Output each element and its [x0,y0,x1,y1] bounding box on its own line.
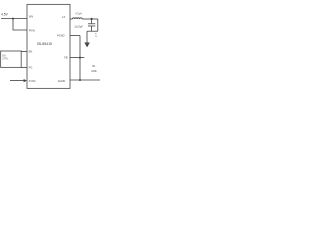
junction AGND node [79,79,81,81]
svg-text:AGND: AGND [58,79,66,83]
svg-text:PGND: PGND [57,34,65,38]
svg-text:PVIN: PVIN [29,28,35,32]
wire SYNC with arrow [10,80,24,82]
svg-text:2x22µF: 2x22µF [75,25,84,28]
wire branch to PVIN pin [13,19,27,30]
svg-text:VIN: VIN [29,15,33,19]
svg-text:FB: FB [64,56,68,60]
host block (left controller box) [1,51,22,67]
wire EN [21,50,27,52]
svg-text:100k: 100k [91,70,97,73]
svg-text:CTRL: CTRL [2,57,9,60]
wire divider vertical [79,36,81,80]
capacitor C2 [91,19,93,23]
svg-text:1k: 1k [95,36,98,38]
inductor L1 [73,18,83,19]
svg-text:SYNC: SYNC [29,79,36,83]
wire ground rail [87,30,98,32]
wire load branch [97,19,99,31]
wire PG [21,66,27,68]
svg-text:4.5V: 4.5V [1,13,9,17]
junction FB node [79,57,81,59]
svg-text:4.7µH: 4.7µH [76,13,83,15]
svg-text:ISL85415: ISL85415 [37,42,52,46]
wire AGND out [70,79,100,81]
wire VOUT [82,18,98,20]
ground [85,42,90,44]
junction on VIN rail [12,18,14,20]
svg-text:LX: LX [62,15,65,19]
wire LX output [70,18,73,20]
svg-text:EN: EN [29,50,33,54]
svg-text:R1: R1 [92,65,96,68]
wire down to ground [86,31,88,43]
op-amp U1 (regulator IC ISL85415 body) [27,4,70,88]
wire FB [70,57,84,59]
wire PGND to divider [70,35,80,37]
junction VOUT node [91,18,93,20]
wire VIN input rail [1,18,27,20]
svg-text:PG: PG [29,66,33,70]
